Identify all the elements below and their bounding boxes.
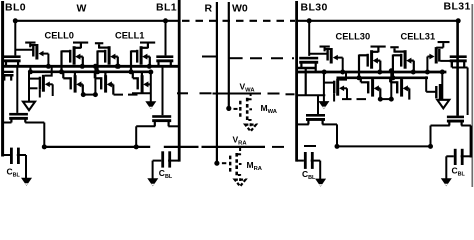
svg-text:BL31: BL31 [444, 1, 471, 13]
wire: BL31 cell node drop to write-assist arrow [441, 71, 443, 103]
arrow (dashed open) below M_WA [245, 125, 256, 132]
svg-text:CELL0: CELL0 [45, 30, 74, 40]
cell supply rail stub (outer right) [438, 41, 450, 43]
wire: BL1 mux source to bitline [168, 125, 179, 127]
wire: bottom transistor source drop [379, 88, 381, 99]
wire to ground (BL1 cap) [152, 161, 154, 179]
svg-text:W0: W0 [232, 3, 248, 15]
cross-couple link segment CELL1 internal (dashed) [114, 94, 139, 96]
wire to ground (BL31 cap) [445, 156, 447, 179]
node on W branch at BL30 column [307, 18, 312, 23]
cross-couple link segment CELL0-CELL1 [83, 94, 96, 96]
wire: top transistor source drop to upper bus (outer) [47, 54, 49, 67]
svg-text:BL0: BL0 [5, 2, 26, 14]
wire: top transistor source drop to upper bus [117, 57, 119, 67]
wire: BL30 write transistor sources [297, 67, 316, 69]
svg-text:CELL1: CELL1 [115, 30, 144, 40]
bitline BL31 (feeds write gates) [456, 21, 459, 116]
node: W0 to M_WA gate junction [226, 106, 231, 111]
wire: BL1 mux to V_RA rail [136, 125, 155, 127]
wire: BL1 array to R line [202, 56, 217, 58]
wire: bottom transistor source stub (outer) [346, 88, 348, 99]
wire: bottom channel to upper bus (outer) [45, 66, 52, 75]
wire: BL30 to read mux drain [297, 123, 309, 125]
cross-couple link segment CELL30 internal (dashed) [342, 98, 366, 100]
wire: read mux source to V_RA rail [25, 122, 44, 124]
cell supply rail stub (left) [95, 42, 103, 44]
node: upper bus at BL31 write-assist branch [440, 70, 445, 75]
wire: W0 to right array (dashed part) [250, 57, 294, 59]
wire: top transistor source drop to upper bus [149, 57, 151, 67]
wire: bottom transistor source lead to column node [150, 83, 151, 85]
wire: top transistor source drop to upper bus [82, 57, 84, 67]
write line W0 [228, 2, 230, 109]
capacitor C_BL (BL1) [153, 160, 162, 162]
capacitor C_BL (BL0) [3, 154, 10, 156]
cell supply rail stub [371, 46, 386, 48]
wire: W branch to BL30 write gates [308, 21, 310, 56]
wire: bottom transistor source drop [408, 88, 410, 99]
transistor BL1 read mux (bottom) [152, 115, 171, 118]
figure border (right edge) [471, 4, 473, 187]
node: V_RA rail at BL1 branch [134, 144, 139, 149]
V_RA rail solid (left arrays) [44, 146, 150, 148]
write-assist stub at BL0 (to V_WA) [29, 87, 38, 89]
arrow (filled) at BL1 column [145, 101, 156, 109]
write-assist hook at BL1 (to V_WA) [132, 92, 151, 94]
wordline W horizontal segment (right array) [297, 20, 459, 22]
V_WA rail dashed (left of R) [177, 92, 188, 94]
transistor BL31 read mux (bottom) [447, 116, 464, 119]
cell supply rail stub (outer) [25, 42, 35, 44]
cell transistor (top) [69, 50, 71, 63]
transistor BL30 read mux (bottom) [306, 114, 325, 117]
wire: bottom transistor source drop [82, 84, 84, 94]
cell supply rail stub [73, 42, 88, 44]
node: upper bus at BL30 write-assist branch [322, 70, 327, 75]
wire: link rise to upper bus [94, 66, 96, 94]
V_WA rail dashed (right of W0) [268, 93, 280, 95]
wire: bottom gate lead [95, 77, 101, 79]
transistor M_RA (dashed symbol) [222, 162, 226, 164]
cell transistor (top, outer) [325, 49, 330, 51]
wire: top transistor source drop to upper bus (outer) [342, 58, 344, 72]
wire: gate lead of BL0 read mux [16, 66, 18, 113]
node: lower bus right end [148, 70, 153, 75]
storage bus (lower) right array [337, 77, 429, 80]
node: R to M_RA gate junction [214, 161, 219, 166]
transistor BL31 write access (top) [450, 55, 467, 58]
wire: bottom gate lead [390, 81, 396, 83]
wordline W horizontal segment (left array) [14, 20, 181, 22]
bitline BL1 [178, 0, 181, 162]
wire: top transistor source drop (outer right) [427, 56, 430, 58]
cell transistor (bottom) [70, 77, 72, 89]
node: V_RA rail at BL31 branch [428, 144, 433, 149]
cell transistor (top) [136, 50, 138, 63]
bitline BL30 [295, 1, 298, 162]
wire: top gate drop to lower bus [96, 51, 98, 72]
node: V_RA rail at BL30 branch [335, 144, 340, 149]
cell transistor (top) [367, 54, 369, 67]
wire: W0 to right array (solid part) [229, 57, 243, 59]
wire: top transistor source drop to upper bus [379, 61, 381, 72]
wire: top transistor source drop to upper bus [413, 61, 415, 72]
capacitor C_BL (BL31) [446, 155, 454, 157]
cell transistor (top, outer) [30, 45, 35, 47]
ground arrow (BL30 cap) [315, 179, 326, 187]
wire: bottom channel to upper bus (outer) [339, 72, 346, 80]
node on W at BL1 column [163, 18, 168, 23]
wire: BL31 mux source to bitline capacitor [461, 125, 471, 127]
wire: top gate drop to lower bus [60, 51, 62, 72]
transistor BL1 write access (top) [156, 55, 173, 58]
wire: bottom gate lead [63, 77, 70, 79]
cell supply rail stub [140, 42, 155, 44]
node: V_RA rail at BL0 branch [42, 144, 47, 149]
cell transistor (top, outer right) [438, 49, 440, 62]
cross-couple link segment CELL30-CELL31 [380, 98, 391, 100]
cell transistor (bottom, outer right) [435, 86, 437, 98]
node on W at BL0 column [13, 18, 18, 23]
cell supply rail stub (outer) [320, 46, 330, 48]
read line R [216, 2, 218, 164]
wire: bottom transistor source drop [112, 84, 114, 94]
svg-text:R: R [205, 3, 213, 15]
ground arrow (BL0 cap) [21, 178, 32, 186]
node: bus jog at BL0 side [29, 66, 31, 72]
write-assist hook at BL30 (to V_WA) [297, 94, 326, 96]
bitline BL0 [1, 1, 4, 157]
V_RA rail segment to center [202, 146, 266, 148]
wire: bottom gate lead [361, 81, 368, 83]
wire: bottom gate lead from lower bus end (outer right) [425, 76, 427, 92]
node: G3 source at upper bus [116, 64, 121, 69]
wire: BL30 cell node drop to write-assist arrow [323, 71, 325, 103]
transistor BL30 write access (top) [299, 57, 318, 60]
wire: W to BL0 write gates [14, 21, 16, 56]
ground arrow (BL1 cap) [147, 178, 158, 186]
wire: bottom gate lead [133, 77, 137, 79]
svg-text:W: W [77, 3, 87, 15]
wire: top gate drop to lower bus [392, 55, 394, 78]
cell supply rail stub (left) [390, 46, 398, 48]
transistor BL0 read mux (bottom) [9, 113, 28, 116]
transistor M_WA (dashed symbol) [234, 108, 238, 110]
wire: BL31 write transistor to read mux feed [452, 67, 468, 69]
ground arrow (BL31 cap) [441, 178, 452, 186]
wire: top gate drop to lower bus [130, 51, 132, 72]
storage bus (upper) right array [297, 71, 447, 74]
wire: read mux source to V_RA rail [322, 123, 337, 125]
wire: link rise to upper bus (right) [390, 71, 392, 99]
node on W branch at BL31 column [456, 18, 461, 23]
V_RA rail dashed (center-right) [272, 146, 284, 148]
wire: gate lead of BL30 read mux [317, 95, 319, 114]
arrow (open) at BL31 column [437, 100, 449, 109]
cell transistor (bottom) [396, 81, 398, 93]
storage bus (upper) left array [3, 65, 180, 68]
V_RA rail solid (right arrays) [337, 145, 431, 147]
cell transistor (bottom, outer) [324, 82, 334, 84]
arrow (dashed open) below M_RA [235, 180, 246, 187]
transistor BL0 write access (top) [4, 55, 21, 58]
svg-text:CELL31: CELL31 [401, 32, 436, 42]
transistor BL0 write access (lower pair) [3, 71, 14, 73]
wire: top gate lead to write feed (outer right) [440, 60, 451, 62]
wordline W dashed continuation (center) [182, 20, 295, 22]
cell transistor (bottom) [367, 81, 369, 93]
storage bus (lower) left array [30, 71, 151, 74]
arrow (open) at BL0 column [23, 102, 35, 111]
cell transistor (bottom, outer) [29, 78, 40, 80]
cell transistor (bottom) [100, 77, 102, 89]
svg-text:CELL30: CELL30 [336, 32, 371, 42]
cell transistor (top) [400, 54, 402, 67]
wire to ground (BL0 cap) [25, 155, 27, 178]
svg-text:BL1: BL1 [156, 2, 177, 14]
svg-text:BL30: BL30 [301, 2, 328, 14]
wire: top gate drop to lower bus [358, 55, 360, 78]
wire to ground (BL30 cap) [319, 161, 321, 180]
wire: BL31 mux to V_RA rail [431, 125, 450, 127]
arrow (filled) at BL30 column [318, 101, 329, 109]
wire: gate lead of BL1 read mux [162, 66, 164, 115]
wire: bottom transistor source stub (outer) [52, 84, 54, 96]
V_RA rail segment past BL1 [164, 146, 199, 148]
wire: BL1 cell node drop to write-assist arrow [150, 72, 152, 103]
wire: W to BL1 write gates [165, 21, 167, 56]
wire: BL30 read mux gate stub [305, 68, 307, 96]
capacitor C_BL (BL30) [297, 160, 304, 162]
V_WA rail solid (through R and W0) [213, 93, 262, 95]
wire: BL0 to read mux drain [3, 122, 12, 124]
cell transistor (bottom) [137, 77, 139, 89]
cell transistor (top) [104, 50, 106, 63]
wire: BL0 cell node drop to write-assist arrow [28, 72, 30, 104]
